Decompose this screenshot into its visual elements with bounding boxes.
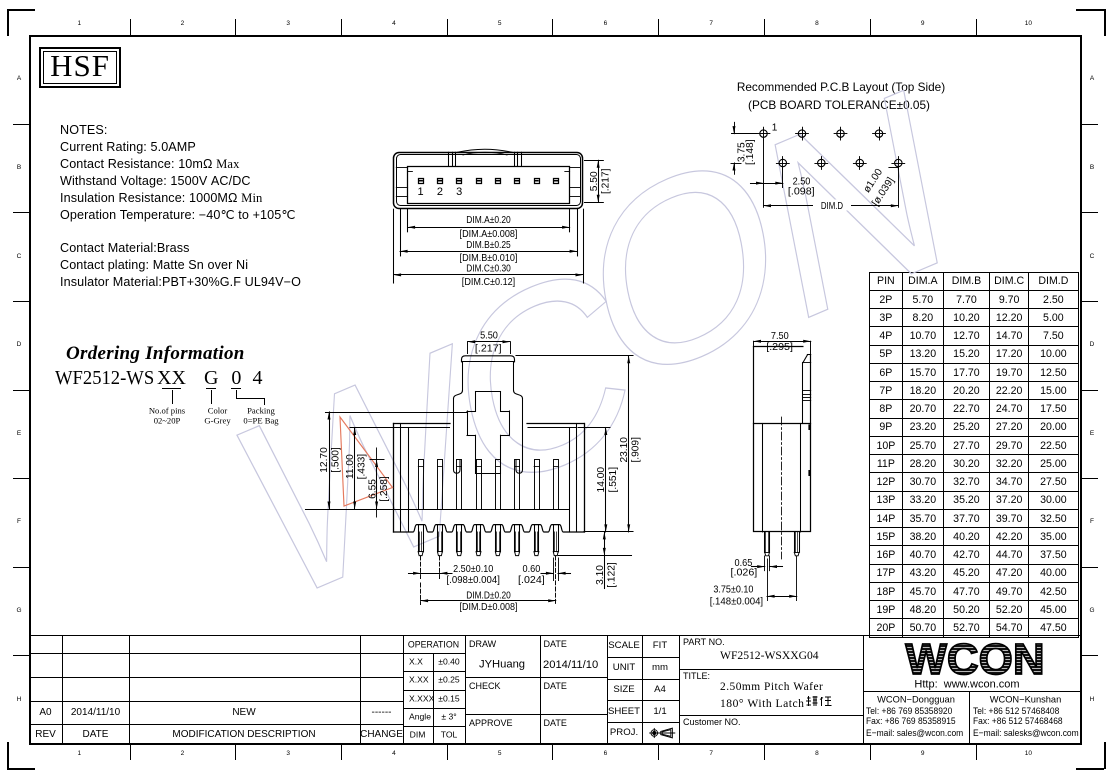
pcb layout holes — [760, 130, 767, 137]
pins below body — [418, 525, 420, 552]
body walls — [393, 424, 395, 533]
side view: connector profile — [754, 346, 803, 348]
dim 2.50 pitch — [420, 556, 422, 579]
dim 3.75 pcb — [732, 133, 758, 135]
red revision triangle — [340, 417, 393, 506]
dim 12.70 11.00 6.55 left — [326, 412, 468, 414]
side body — [754, 424, 811, 532]
HSF logo box — [39, 47, 121, 88]
ordering information — [66, 344, 245, 363]
dim 0.60 pin width — [553, 558, 555, 581]
svg-text:WCON: WCON — [905, 636, 1044, 684]
pcb layout title — [737, 82, 945, 94]
title block — [29, 635, 1082, 636]
dim 3.75 side — [767, 559, 769, 601]
WCON logo — [863, 636, 1082, 692]
dim 2.50 pcb — [763, 140, 765, 207]
dim 14.00 23.10 right — [516, 355, 633, 357]
top view: connector mating face — [394, 153, 583, 209]
latch arms — [454, 399, 461, 474]
dim dia 1.00 pcb — [889, 167, 898, 169]
draw check approve block — [465, 677, 607, 678]
center key — [476, 391, 501, 393]
dim 7.50 side — [754, 341, 811, 343]
top view pins 1-8 — [419, 179, 424, 184]
projection symbol — [644, 724, 684, 742]
side pins — [764, 532, 766, 552]
dim DIM.D pcb — [898, 167, 900, 207]
dim DIM.D — [420, 583, 422, 605]
pin slots — [419, 460, 424, 510]
bottom wavy edge — [394, 525, 585, 532]
operation tolerance block — [403, 653, 465, 654]
dim 0.65 side — [764, 556, 766, 571]
scale unit size sheet proj block — [607, 657, 679, 658]
revision table — [29, 653, 403, 654]
dim 3.10 — [558, 555, 631, 557]
dim 5.50 [.217] top view — [585, 160, 604, 162]
dims DIM.A DIM.B DIM.C — [407, 209, 409, 232]
dim 5.50 over latch cap — [468, 341, 510, 343]
pin dimension table — [869, 272, 1079, 638]
frame corner marks — [7, 9, 35, 11]
part number and title block — [679, 669, 863, 670]
frame tick marks and zone labels — [130, 19, 131, 35]
side latch arm — [802, 363, 804, 424]
notes text — [60, 124, 107, 137]
